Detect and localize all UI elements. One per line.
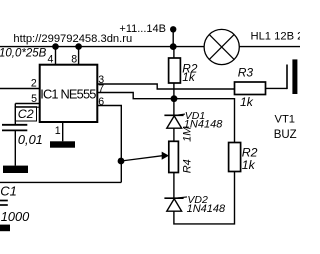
wire VD2 bottom loop (174, 172, 235, 224)
wire pin 5 (15, 103, 39, 105)
leader VD1 (178, 113, 186, 116)
label frame C2 (15, 107, 36, 121)
wire node to R2 lower (174, 99, 235, 143)
svg-text:IC1 NE555: IC1 NE555 (40, 87, 96, 102)
wire pin 2 (0, 88, 40, 90)
wire pin 3 output (97, 84, 234, 89)
wire pin 7 discharge (97, 93, 174, 99)
svg-text:1k: 1k (240, 95, 254, 109)
junction pin8 node (75, 43, 82, 50)
wire lamp to drain rail right (239, 46, 300, 48)
junction wiper node (118, 158, 125, 165)
svg-text:6: 6 (98, 96, 104, 108)
svg-text:BUZ: BUZ (274, 129, 297, 141)
resistor R3 (235, 66, 266, 110)
svg-text:R3: R3 (238, 66, 254, 80)
ground pin1 (50, 141, 75, 147)
wire pin5 lower stub (15, 106, 39, 108)
potentiometer R4 (169, 126, 194, 174)
svg-text:1000: 1000 (1, 209, 30, 224)
power terminal +11...14V (170, 26, 176, 47)
svg-text:1k: 1k (182, 70, 196, 84)
capacitor C2 (2, 125, 27, 131)
resistor R2 top lead (173, 47, 175, 58)
svg-text:R4: R4 (181, 159, 193, 173)
wire R3 to gate (266, 87, 288, 89)
junction discharge node (171, 95, 178, 102)
diode VD1 (164, 115, 183, 128)
ground C2 (3, 166, 28, 173)
leader VD2 (178, 197, 188, 198)
wire pin 6 threshold (97, 106, 121, 183)
svg-text:1: 1 (55, 125, 61, 137)
svg-text:5: 5 (31, 93, 37, 105)
wire C2 to ground (14, 130, 16, 165)
junction pin4 node (52, 43, 59, 50)
wire pin5 to C2 (14, 104, 16, 125)
diode VD2 (164, 198, 183, 211)
svg-text:C1: C1 (0, 184, 17, 199)
svg-text:VT1: VT1 (275, 113, 296, 125)
resistor R2 bottom lead (173, 83, 175, 115)
transistor VT1 gate (286, 65, 288, 90)
wire VD1 to R4 (173, 128, 175, 141)
svg-text:HL1 12В 2: HL1 12В 2 (251, 31, 301, 43)
lamp HL1 (204, 29, 239, 64)
wire pin 4 (55, 47, 57, 65)
resistor R2 (upper) (169, 58, 198, 84)
transistor VT1 channel (292, 59, 297, 94)
svg-text:http://299792458.3dn.ru: http://299792458.3dn.ru (13, 33, 132, 45)
svg-text:2: 2 (31, 77, 37, 89)
wire pin 1 (62, 122, 64, 141)
wire R4 to VD2 (173, 173, 175, 199)
junction supply / R2 (170, 43, 177, 50)
wire bottom rail (0, 181, 121, 183)
svg-text:10,0*25В: 10,0*25В (0, 48, 47, 60)
resistor R2 (lower) (229, 143, 258, 172)
svg-text:0,01: 0,01 (18, 132, 43, 147)
svg-text:1M: 1M (181, 126, 193, 142)
svg-text:1N4148: 1N4148 (187, 203, 226, 215)
wire wiper arrow (121, 152, 169, 161)
ground C1 (0, 225, 10, 232)
svg-text:C2: C2 (18, 107, 34, 121)
wire pin 8 (78, 47, 80, 65)
svg-text:1k: 1k (242, 158, 256, 172)
wire supply rail left (0, 46, 204, 48)
svg-text:7: 7 (98, 83, 104, 95)
timer IC1 NE555 (40, 65, 98, 122)
capacitor C1 (0, 201, 8, 206)
